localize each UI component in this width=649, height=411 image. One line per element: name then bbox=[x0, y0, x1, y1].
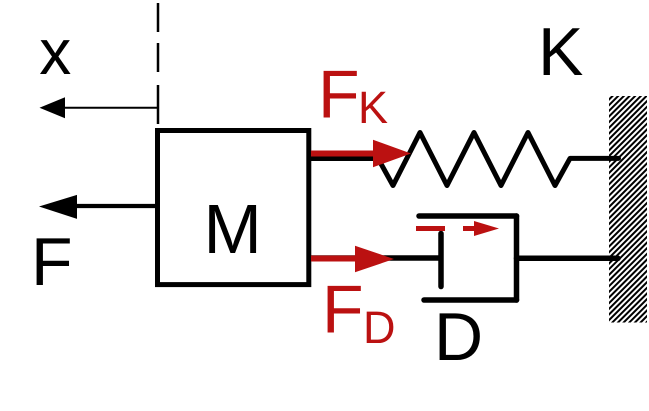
damper D cylinder bbox=[419, 216, 517, 300]
svg-text:D: D bbox=[434, 299, 483, 375]
force F arrow bbox=[39, 195, 157, 219]
wire mass to damper piston bbox=[311, 255, 441, 261]
mass M box bbox=[158, 131, 309, 285]
svg-text:x: x bbox=[39, 16, 71, 88]
reference dashed line (equilibrium position) bbox=[157, 3, 160, 124]
svg-text:K: K bbox=[538, 14, 583, 90]
label FK bbox=[318, 57, 388, 134]
svg-text:M: M bbox=[204, 190, 262, 268]
wire mass to spring bbox=[311, 156, 380, 161]
svg-text:K: K bbox=[358, 82, 388, 133]
force FD red arrow bbox=[311, 246, 394, 273]
label FD bbox=[322, 272, 396, 354]
svg-text:F: F bbox=[318, 57, 360, 133]
svg-text:F: F bbox=[31, 224, 73, 300]
relative velocity red arrow bbox=[416, 221, 499, 236]
svg-text:D: D bbox=[363, 302, 396, 353]
spring K bbox=[378, 133, 619, 186]
svg-text:F: F bbox=[322, 272, 364, 348]
fixed wall (hatched) bbox=[609, 96, 647, 323]
damper piston bbox=[438, 234, 444, 287]
wire damper to wall bbox=[517, 256, 619, 262]
force FK red arrow bbox=[311, 140, 411, 167]
x-axis arrow bbox=[40, 97, 159, 118]
